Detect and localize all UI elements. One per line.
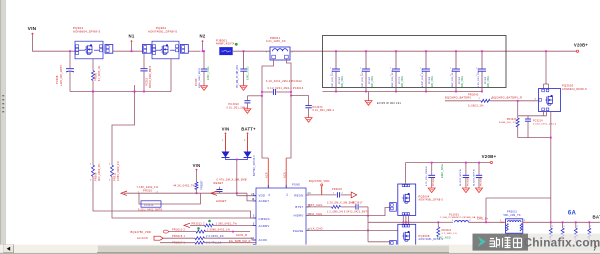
horizontal scrollbar track [0,245,600,253]
svg-text:N330U_0402_6MTK: N330U_0402_6MTK [150,65,152,88]
capacitor PC3035 group with ground [465,162,467,164]
scrollbar left arrow button [4,245,14,253]
svg-text:5M1_10M_7%: 5M1_10M_7% [504,215,521,217]
wires PQ3004 source to LX line [402,215,404,222]
svg-text:EV/35 W 902 221: EV/35 W 902 221 [377,101,401,105]
svg-text:PC3031: PC3031 [481,177,483,186]
svg-text:EMC_NSG: EMC_NSG [206,66,210,80]
PQ304 drain pad block [105,45,113,54]
capacitor PC3017 bootstrap inline [355,204,357,209]
red triangle marker [351,192,357,198]
svg-text:400A_04C_1%: 400A_04C_1% [499,121,516,124]
svg-text:PR3015 1: PR3015 1 [172,235,185,238]
svg-text:BTST: BTST [295,205,303,209]
svg-text:EMC_NSG: EMC_NSG [372,76,374,88]
svg-text:CMSRC: CMSRC [259,217,271,221]
svg-text:PR310: PR310 [143,189,152,193]
svg-text:ACDET: ACDET [259,199,270,203]
svg-text:6.1U_0201_2M4-4 PC3012: 6.1U_0201_2M4-4 PC3012 [266,80,302,83]
capacitor PC3010 box parallel loop [139,193,201,204]
svg-text:RST_CHG: RST_CHG [309,203,323,207]
net ACDET wire [124,192,247,194]
svg-text:4.7_0603_1%: 4.7_0603_1% [99,66,101,81]
watermark light panel [528,234,600,251]
svg-text:EMC_NSG: EMC_NSG [246,66,250,80]
svg-text:EMC_NSG: EMC_NSG [440,164,444,178]
wire PQ302 to N2 [188,50,200,52]
wire battery line right [529,221,600,223]
svg-text:PC3010: PC3010 [229,103,240,106]
svg-text:AON6604_DFN8-S: AON6604_DFN8-S [73,30,100,34]
svg-text:RESET: RESET [214,181,224,185]
wire PQ304 to N1 to PQ302 [113,50,143,52]
wires from PR3021 bottom corners down [507,233,509,241]
svg-text:6MP_D36_50TK: 6MP_D36_50TK [392,69,394,87]
wire V20B+ rail down to PQ3003 [545,50,547,52]
svg-text:V20B+: V20B+ [574,43,588,48]
svg-text:2 0.045U_4%: 2 0.045U_4% [206,235,224,238]
svg-text:PC3034: PC3034 [433,177,435,186]
svg-text:PC305: PC305 [459,76,461,84]
svg-text:PR3087: PR3087 [201,180,204,190]
svg-text:PC306: PC306 [485,76,487,84]
svg-text:EMC_NSG: EMC_NSG [432,76,434,88]
svg-text:6A: 6A [568,210,577,216]
svg-text:PQ3008: PQ3008 [419,234,430,238]
svg-text:1: 1 [333,193,334,195]
svg-text:NL/D03_5MY-W: NL/D03_5MY-W [473,168,475,186]
svg-text:PC303: PC303 [369,76,371,84]
svg-text:20P_D36_50TK: 20P_D36_50TK [332,70,334,87]
wire ACP from PRD01 down to charger [262,59,274,158]
svg-text:BAT: BAT [593,215,600,220]
svg-text:YN_2M_JY_NB_O61: YN_2M_JY_NB_O61 [237,64,239,88]
resistor PR308 40K_0402 [92,91,94,93]
step wire to battery line [486,197,551,199]
PQ302 drain pad block [181,45,189,54]
svg-text:7.15K_0402_1%: 7.15K_0402_1% [137,186,159,189]
junction at PC308 [69,50,71,52]
watermark teal arrow icon [478,236,486,247]
cursor mark after watermark text [594,244,597,251]
svg-text:PR3024: PR3024 [442,230,452,232]
svg-text:VIN: VIN [222,127,230,132]
svg-text:44.2K_0402_7%: 44.2K_0402_7% [173,184,195,187]
capacitor PC3013 bridging ACP/ACN [262,91,273,93]
wire REGN [306,194,336,196]
svg-text:BATT+: BATT+ [241,127,256,132]
svg-text:LX_CHG: LX_CHG [311,226,323,230]
wire bootstrap branch down [359,206,368,208]
resistor 44.2K_0402 divider top [196,171,198,183]
window bottom edge [0,253,600,254]
svg-text:VDD: VDD [259,194,266,198]
wire PQ302 source to bus [170,59,172,92]
wires joining diodes to VDD [226,158,248,160]
capacitor bank enclosure box [323,36,507,88]
op-amp U1: charger IC BQ24780 box [256,188,306,246]
watermark chinese text vector strokes [490,237,522,248]
capacitor group at N2 with ground [203,50,205,52]
svg-text:N1: N1 [129,33,135,38]
svg-text:A4 AON: A4 AON [137,236,148,240]
svg-text:0.47U_5M_X_5M_5MB: 0.47U_5M_X_5M_5MB [217,178,247,181]
ground bus of capacitor bank [323,91,483,93]
row ACDRV: arrow and resistor PR3012 [184,223,190,227]
svg-text:PR3017 1: PR3017 1 [172,242,185,245]
svg-text:0_0603_1%: 0_0603_1% [468,105,484,108]
svg-text:PGND: PGND [292,184,300,187]
wire LX to battery line [368,221,439,223]
capacitor PC303 in bank [365,50,367,52]
svg-text:PC3010: PC3010 [144,205,154,207]
capacitor PC3214 [527,116,529,119]
svg-text:EMC_NSG: EMC_NSG [488,76,490,88]
svg-text:PC3017: PC3017 [353,201,364,204]
capacitor to ground on ACP [261,95,263,97]
svg-text:PC3214: PC3214 [533,120,543,122]
svg-text:PC3035: PC3035 [467,177,469,186]
wire into ACDET pin [247,193,256,201]
staircase wire from bus to PR311 [134,91,136,93]
svg-text:11: 11 [251,237,254,240]
svg-text:1.31A_PCMB/B27-2R2MB_6A_20%: 1.31A_PCMB/B27-2R2MB_6A_20% [440,216,482,219]
left window edge strip [0,0,1,254]
IC pin stubs left [253,195,256,197]
arrow on ACDET line [211,191,217,195]
svg-text:PL3001: PL3001 [449,213,459,216]
diode PD301 BAT54C dual [225,134,227,151]
svg-text:PC304: PC304 [429,76,431,84]
svg-text:PQ3004: PQ3004 [419,194,430,198]
svg-text:40K_0402_1%: 40K_0402_1% [98,163,101,181]
resistor PR3024 branch below [437,222,439,227]
svg-text:ACOK: ACOK [259,238,268,242]
capacitor PC3073 with ground on ACN [290,95,292,97]
svg-text:ACDRV: ACDRV [259,224,270,228]
wire V20B+ down to PQ3004 drain [405,163,407,184]
svg-text:BQ24780_VDD: BQ24780_VDD [309,179,330,183]
svg-text:EMC_NSG: EMC_NSG [437,237,451,240]
svg-text:6.1U_D01_2M4-4: 6.1U_D01_2M4-4 [313,110,335,112]
svg-text:Chinafix.com: Chinafix.com [523,235,600,249]
svg-text:REGN: REGN [294,194,303,198]
svg-text:28: 28 [251,193,255,196]
capacitor group PC304 with ground [243,50,245,52]
capacitor PC306 in bank [481,50,483,52]
svg-text:1.8U_D20_25M-K: 1.8U_D20_25M-K [478,68,480,87]
svg-text:0.01_1206_1%: 0.01_1206_1% [266,40,286,43]
svg-text:PR3012 2: PR3012 2 [192,222,205,225]
capacitor PC3T1 in bank [395,50,397,52]
svg-text:2.2U_5M_X_5M_5MB: 2.2U_5M_X_5M_5MB [327,201,355,204]
svg-text:BQ24780_VDD: BQ24780_VDD [131,230,152,234]
svg-text:6MP_D36_50TK: 6MP_D36_50TK [452,69,454,87]
resistor PR311 4.99K_0402 [111,165,114,177]
stub above bus at gate net [134,85,136,92]
svg-text:0.01U_0201_2M4-4: 0.01U_0201_2M4-4 [533,123,557,125]
ground symbol on bank bus [368,92,370,101]
svg-text:PR3021: PR3021 [507,211,518,214]
svg-text:PR3013 2: PR3013 2 [172,229,185,232]
svg-text:CH_CHG: CH_CHG [310,212,322,216]
transistor PQ3008 AON7408L low side [390,241,397,250]
resistor PR306 4.7_0603 under PQ304 [92,59,94,71]
svg-text:4.7U_D51_25MHK: 4.7U_D51_25MHK [426,166,428,186]
wire LODRV into PQ3008 gate block [368,241,390,243]
capacitor PC302 in bank [335,50,337,52]
svg-text:PR3016: PR3016 [332,188,343,191]
svg-text:1 390_0402_7%: 1 390_0402_7% [216,222,238,225]
svg-text:EMC_NSG: EMC_NSG [402,76,404,88]
svg-text:N2: N2 [200,33,206,38]
rail through capacitor bank box [290,50,576,52]
wire ACN from PRD01 down to charger [286,59,291,158]
svg-text:N30U_0402_6MTK: N30U_0402_6MTK [199,67,201,88]
ground bus under input FETs [70,91,171,93]
net connector arrow ACDET left [121,191,127,195]
battery line junctions and dividers [550,221,552,223]
svg-text:ACP: ACP [265,172,269,178]
svg-text:CHG_B+: CHG_B+ [477,218,489,221]
svg-text:2: 2 [342,193,343,195]
svg-text:20P_D36_50TK: 20P_D36_50TK [362,70,364,87]
svg-text:0.1U_0201_2M4-4 PC3013: 0.1U_0201_2M4-4 PC3013 [268,87,304,90]
svg-text:VIN: VIN [28,26,37,32]
wire V20B+ mid rail [406,162,491,164]
capacitor PC301 N330U_0402 under PQ302 pad [143,53,145,68]
svg-text:PC306: PC306 [196,78,198,86]
wire VIN down and right to PQ304 [33,35,76,51]
svg-text:PC301: PC301 [146,77,149,86]
resistor PR3043 400A_04C [516,118,519,127]
capacitor PC305 in bank [455,50,457,52]
svg-text:PRD01: PRD01 [270,36,280,40]
svg-text:2 0.47U_16: 2 0.47U_16 [206,242,222,245]
svg-text:PR3043: PR3043 [507,119,517,121]
svg-text:NL/C03_5MY-W: NL/C03_5MY-W [460,168,462,186]
transistor PQ3004 AON7408L high side [390,203,397,212]
svg-text:BQCHRG_BATDRV_R: BQCHRG_BATDRV_R [492,95,522,99]
svg-text:PR3041: PR3041 [468,93,479,96]
svg-text:ACIN_R: ACIN_R [236,233,247,237]
svg-text:PR306: PR306 [95,72,98,81]
IC pin stubs top [267,185,269,188]
snubber under PQ3003: wires [543,112,545,116]
left strip splitter dashes [2,95,4,96]
watermark dark panel [473,234,529,251]
wire ACDRV net from PR311 to charger [112,177,256,219]
svg-text:PHASE: PHASE [293,229,304,233]
capacitor PC3034 group with ground [431,162,433,164]
svg-text:47MP_D36_50TK: 47MP_D36_50TK [422,68,424,87]
capacitor PC308 +105_220_100TK [69,51,71,68]
capacitor PC3031 group with ground [478,162,480,164]
svg-text:AON6604_DFN8-S: AON6604_DFN8-S [562,88,587,91]
svg-text:1 5986_0402_1%: 1 5986_0402_1% [207,229,231,232]
wires joining snubber bottom [517,127,519,138]
svg-text:PC308: PC308 [55,75,59,84]
svg-text:2.2_5M6_1%: 2.2_5M6_1% [442,233,457,235]
svg-text:+105_220_100TK: +105_220_100TK [60,64,63,86]
svg-text:4MMF_4SXTA: 4MMF_4SXTA [216,43,235,46]
svg-text:PC3T1: PC3T1 [399,76,401,84]
svg-text:V20B+: V20B+ [482,154,497,159]
wire fuse to PRD01 [233,50,270,52]
wire PQ3003 source down [550,112,552,199]
svg-text:PC3073: PC3073 [313,106,324,109]
VIN terminal [32,33,34,35]
svg-text:4.99K_0402_1%: 4.99K_0402_1% [117,161,120,181]
svg-text:EMC_NSG: EMC_NSG [462,76,464,88]
capacitor PC304 in bank [425,50,427,52]
svg-text:AON7408L_DFN8-S: AON7408L_DFN8-S [148,30,177,34]
svg-text:AON7408L_DFN8-S: AON7408L_DFN8-S [419,199,444,202]
svg-text:ACDET: ACDET [216,199,227,203]
svg-text:ACN: ACN [283,172,287,178]
svg-text:EMC_NSG: EMC_NSG [342,76,344,88]
wires LX line to PQ3008 drain [402,222,404,224]
svg-text:BAT54C_SOT23-3: BAT54C_SOT23-3 [253,155,256,176]
svg-text:VIN: VIN [193,163,201,168]
svg-text:PC302: PC302 [339,76,341,84]
green marker at fuse [235,43,238,46]
IC pin stubs right [306,194,309,196]
svg-text:HIDRV: HIDRV [294,214,304,218]
scrollbar thumb [97,245,449,253]
wire CMSRC from PR308 to charger [93,177,256,219]
svg-text:PR311: PR311 [113,172,117,181]
svg-text:1.2_5M0_3% 0.04Y2_0421_5MTK: 1.2_5M0_3% 0.04Y2_0421_5MTK [327,211,369,213]
svg-text:PR308: PR308 [94,172,98,181]
